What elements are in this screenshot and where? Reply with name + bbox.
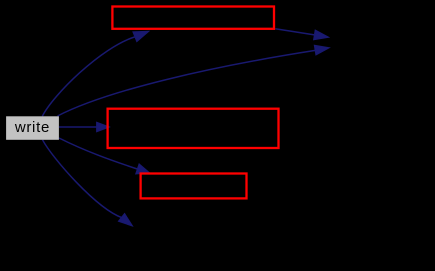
node: small red box (truncated callee) [141, 174, 247, 199]
edge: write -> middle box (wire) [59, 122, 110, 132]
edge: top box -> right node (wire) [275, 29, 328, 40]
node: top red box (truncated callee) [112, 7, 274, 29]
svg-text:write: write [14, 119, 50, 136]
edge: write -> top box (wire) [42, 31, 149, 116]
node: write (current function, gray) [6, 116, 59, 140]
edge: write -> bottom node (wire) [43, 140, 133, 226]
node: middle red box (truncated callee) [108, 109, 279, 148]
edge: write -> small box (wire) [59, 138, 150, 174]
edge: write -> right node (wire) [58, 45, 330, 116]
